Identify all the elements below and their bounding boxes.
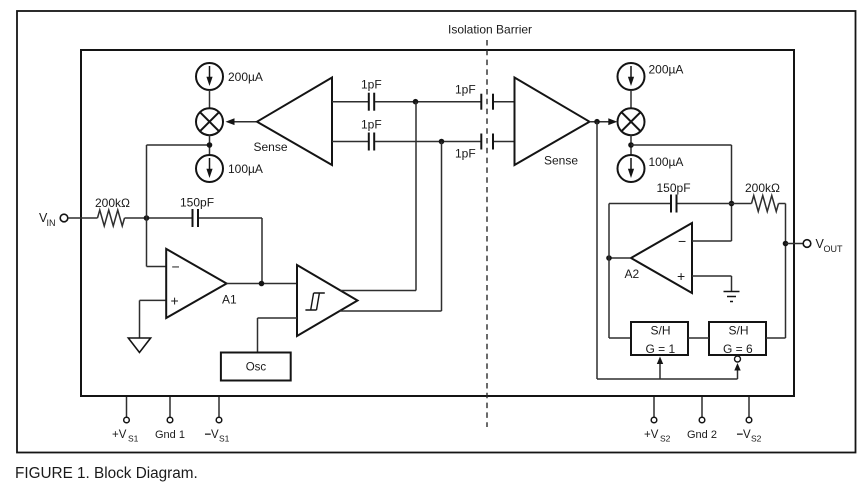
svg-text:−: − bbox=[172, 259, 180, 275]
svg-text:G = 1: G = 1 bbox=[646, 342, 676, 356]
svg-text:FIGURE 1. Block Diagram.: FIGURE 1. Block Diagram. bbox=[15, 465, 198, 482]
svg-text:S2: S2 bbox=[751, 434, 762, 444]
svg-text:100µA: 100µA bbox=[649, 155, 684, 169]
svg-text:G = 6: G = 6 bbox=[723, 342, 753, 356]
svg-text:Sense: Sense bbox=[254, 140, 288, 154]
svg-text:A2: A2 bbox=[625, 267, 640, 281]
svg-text:S2: S2 bbox=[660, 434, 671, 444]
svg-text:200µA: 200µA bbox=[649, 63, 684, 77]
svg-text:A1: A1 bbox=[222, 293, 237, 307]
svg-text:Gnd 2: Gnd 2 bbox=[687, 429, 717, 441]
svg-text:+V: +V bbox=[112, 429, 127, 441]
svg-text:S/H: S/H bbox=[729, 324, 749, 338]
svg-text:1pF: 1pF bbox=[361, 78, 382, 92]
svg-text:150pF: 150pF bbox=[657, 181, 691, 195]
svg-text:V: V bbox=[211, 429, 219, 441]
svg-text:Sense: Sense bbox=[544, 154, 578, 168]
svg-text:+: + bbox=[677, 268, 685, 284]
svg-text:S1: S1 bbox=[219, 434, 230, 444]
svg-text:Osc: Osc bbox=[246, 362, 267, 374]
svg-text:200kΩ: 200kΩ bbox=[745, 181, 780, 195]
svg-text:+V: +V bbox=[644, 429, 659, 441]
svg-text:−: − bbox=[678, 233, 686, 249]
svg-text:Gnd 1: Gnd 1 bbox=[155, 429, 185, 441]
svg-text:200kΩ: 200kΩ bbox=[95, 196, 130, 210]
svg-text:1pF: 1pF bbox=[455, 147, 476, 161]
svg-text:OUT: OUT bbox=[824, 244, 844, 254]
svg-text:100µA: 100µA bbox=[228, 162, 263, 176]
svg-text:200µA: 200µA bbox=[228, 70, 263, 84]
svg-text:1pF: 1pF bbox=[361, 118, 382, 132]
svg-text:1pF: 1pF bbox=[455, 83, 476, 97]
svg-text:IN: IN bbox=[47, 218, 56, 228]
svg-text:V: V bbox=[743, 429, 751, 441]
svg-text:150pF: 150pF bbox=[180, 196, 214, 210]
svg-text:S/H: S/H bbox=[651, 324, 671, 338]
svg-text:S1: S1 bbox=[128, 434, 139, 444]
svg-text:Isolation Barrier: Isolation Barrier bbox=[448, 23, 532, 37]
svg-text:+: + bbox=[171, 293, 179, 309]
